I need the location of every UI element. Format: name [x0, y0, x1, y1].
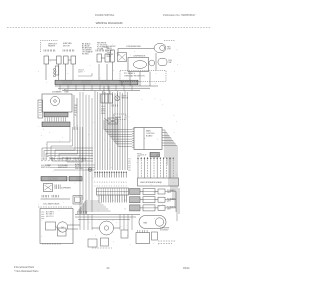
svg-text:5: 5: [126, 182, 127, 184]
svg-text:RD 3 BK 4: RD 3 BK 4: [46, 214, 54, 216]
svg-text:J2 J3 J7: J2 J3 J7: [140, 155, 146, 157]
svg-text:J: J: [102, 185, 103, 187]
svg-text:P5: P5: [129, 168, 131, 170]
svg-text:4: 4: [102, 182, 103, 184]
svg-text:3: 3: [125, 208, 126, 210]
svg-text:P3: P3: [129, 163, 131, 165]
svg-text:3: 3: [99, 182, 100, 184]
svg-text:* Non-Illustrated Parts: * Non-Illustrated Parts: [14, 270, 39, 273]
svg-text:2: 2: [125, 200, 126, 202]
svg-text:P1: P1: [129, 159, 131, 161]
svg-text:8: 8: [111, 182, 112, 184]
svg-text:13 12 11: 13 12 11: [78, 70, 84, 72]
svg-text:HEATER: HEATER: [48, 45, 56, 48]
svg-text:DISPENSER: DISPENSER: [160, 228, 170, 230]
svg-text:RD RED: RD RED: [82, 54, 89, 56]
svg-text:J: J: [121, 185, 122, 187]
svg-text:1: 1: [94, 182, 95, 184]
svg-text:FFHB2740PS6A: FFHB2740PS6A: [95, 13, 114, 17]
svg-text:3: 3: [121, 182, 122, 184]
svg-text:ICE & WATER VALVE: ICE & WATER VALVE: [43, 203, 60, 206]
svg-text:WIRING DIAGRAM: WIRING DIAGRAM: [96, 21, 123, 25]
svg-text:6: 6: [106, 182, 107, 184]
svg-text:SOLENOID: SOLENOID: [160, 230, 169, 232]
svg-text:MOTOR: MOTOR: [63, 45, 70, 47]
svg-text:INLET: INLET: [107, 56, 112, 58]
svg-text:COMPRESSOR: COMPRESSOR: [133, 55, 146, 57]
svg-text:P4: P4: [129, 165, 131, 167]
svg-text:10 9 8: 10 9 8: [78, 72, 83, 74]
svg-text:SWITCH RC: SWITCH RC: [58, 167, 68, 169]
svg-text:J: J: [126, 185, 127, 187]
svg-text:2: 2: [97, 182, 98, 184]
svg-text:J: J: [109, 185, 110, 187]
svg-text:J: J: [97, 185, 98, 187]
svg-text:5: 5: [104, 182, 105, 184]
svg-text:J1 J5: J1 J5: [156, 155, 160, 157]
svg-text:P2: P2: [129, 161, 131, 163]
svg-text:ICE MAKER: ICE MAKER: [52, 91, 62, 94]
svg-text:BOARD: BOARD: [146, 134, 153, 137]
svg-text:# Functional Parts: # Functional Parts: [14, 266, 35, 269]
svg-text:GN 5 YL 6: GN 5 YL 6: [46, 216, 53, 218]
svg-text:OVERLOAD PROTECTOR: OVERLOAD PROTECTOR: [124, 74, 145, 77]
svg-text:CONDENSER FAN: CONDENSER FAN: [126, 45, 141, 48]
svg-text:7: 7: [109, 182, 110, 184]
svg-text:USER INTERFACE BOARD: USER INTERFACE BOARD: [140, 181, 163, 184]
svg-text:BU 1 WH 2: BU 1 WH 2: [46, 212, 54, 214]
svg-text:DISPENSER: DISPENSER: [61, 188, 72, 190]
svg-text:Publication No. 5995559617: Publication No. 5995559617: [163, 13, 196, 17]
svg-text:03/14: 03/14: [183, 266, 190, 270]
svg-text:M: M: [62, 227, 64, 230]
svg-text:1: 1: [125, 192, 126, 194]
svg-text:9: 9: [114, 182, 115, 184]
svg-text:P6: P6: [129, 170, 131, 172]
svg-text:TN TAN: TN TAN: [97, 48, 104, 51]
svg-text:J: J: [114, 185, 115, 187]
svg-text:2: 2: [118, 182, 119, 184]
svg-text:SWITCH FZ: SWITCH FZ: [41, 167, 50, 169]
svg-text:FWD REV: FWD REV: [75, 168, 84, 170]
svg-text:1: 1: [116, 182, 117, 184]
svg-text:4: 4: [123, 182, 124, 184]
